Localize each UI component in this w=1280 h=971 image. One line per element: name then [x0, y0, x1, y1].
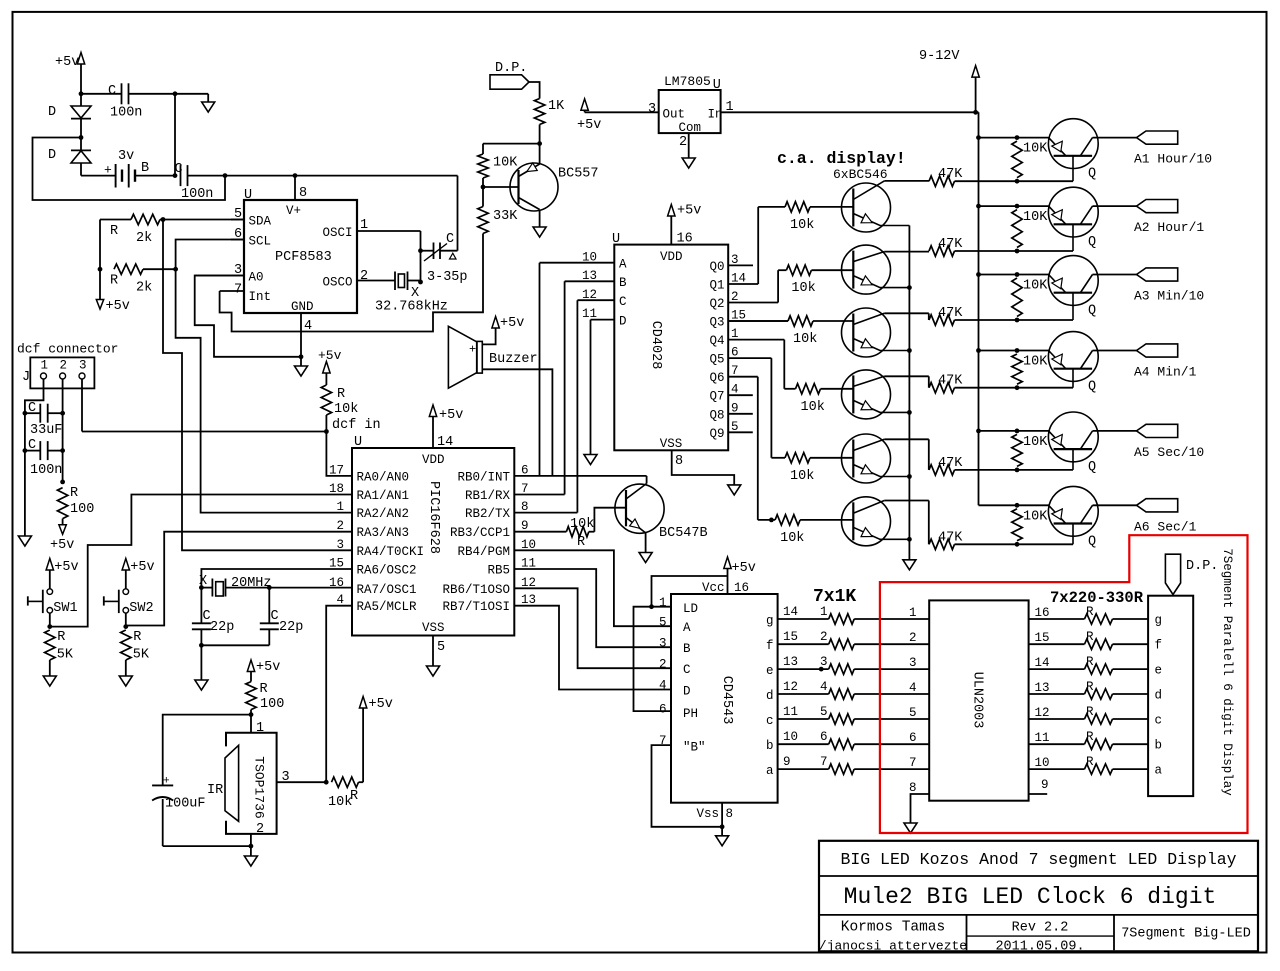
- IC U PCF8583 box: [244, 200, 357, 313]
- wire emitter row 4: [979, 350, 1049, 352]
- svg-text:8: 8: [726, 807, 734, 821]
- wire C1 to ground: [129, 93, 209, 95]
- svg-text:Q: Q: [1088, 235, 1096, 250]
- svg-text:10K: 10K: [493, 156, 518, 171]
- resistor 10K (BC557 base pullup): [478, 154, 488, 178]
- junction 10K top row 1: [1015, 135, 1020, 140]
- wire RB6 to CD4543 C: [514, 588, 671, 668]
- IC TSOP1736 box: [226, 733, 277, 834]
- svg-text:e: e: [1155, 664, 1163, 678]
- svg-text:d: d: [766, 689, 774, 703]
- node SCL riser: [173, 267, 178, 272]
- svg-text:SCL: SCL: [249, 235, 272, 249]
- svg-text:Q0: Q0: [709, 260, 724, 274]
- transistor Q1 BC327 (pnp): [1048, 119, 1098, 169]
- pin 2 TSOP gnd: [250, 834, 252, 846]
- svg-text:PIC16F628: PIC16F628: [426, 481, 441, 554]
- svg-text:Q3: Q3: [709, 316, 724, 330]
- svg-text:R: R: [110, 274, 118, 289]
- wire TSOP gnd rail: [163, 845, 251, 847]
- ground (BC557 collector): [533, 227, 546, 237]
- wire LD to PH: [634, 607, 672, 711]
- svg-text:U: U: [354, 435, 362, 450]
- wire node to 10K: [483, 143, 540, 145]
- svg-text:A: A: [683, 621, 691, 635]
- wire BC546 emitter rail: [908, 226, 910, 560]
- svg-text:RB7/T1OSI: RB7/T1OSI: [442, 600, 510, 614]
- node SW2: [123, 624, 128, 629]
- wire RA1 to SW1: [50, 495, 352, 627]
- wire emitter row 6: [979, 504, 1049, 506]
- pin 3 A0: [195, 275, 244, 277]
- svg-text:Out: Out: [663, 108, 686, 122]
- svg-text:7x220-330R: 7x220-330R: [1050, 589, 1144, 607]
- svg-text:2: 2: [679, 135, 687, 150]
- svg-text:LM7805: LM7805: [664, 74, 711, 89]
- pin 4 GND: [300, 313, 302, 357]
- svg-text:+: +: [163, 776, 170, 788]
- wire RB7 to CD4543 D: [514, 606, 671, 690]
- svg-text:7Segment Big-LED: 7Segment Big-LED: [1121, 927, 1251, 942]
- wire pin7 to Vss: [652, 745, 723, 827]
- svg-text:+5v: +5v: [369, 697, 393, 712]
- junction T6 base wire: [769, 518, 774, 523]
- svg-text:A0: A0: [249, 271, 264, 285]
- svg-text:c: c: [1155, 714, 1163, 728]
- pin 3 TSOP out: [277, 781, 327, 783]
- node TSOP pin1: [249, 712, 254, 717]
- pin 11 D: [591, 319, 615, 321]
- svg-text:47K: 47K: [938, 167, 963, 182]
- wire 2k left vertical: [99, 220, 101, 270]
- IC U LM7805 box: [659, 90, 721, 133]
- svg-text:Q9: Q9: [709, 427, 724, 441]
- svg-text:+5v: +5v: [577, 118, 601, 133]
- wire D.P. to 1K: [529, 82, 540, 99]
- svg-text:1: 1: [360, 218, 368, 233]
- svg-text:R: R: [337, 387, 345, 402]
- wire Q4 riser to T4 base: [783, 340, 785, 389]
- pin 12 C: [577, 299, 614, 301]
- IC U PIC16F628 box: [352, 448, 514, 636]
- +5v supply (CD4543 Vcc): [724, 557, 731, 569]
- svg-text:dcf in: dcf in: [332, 418, 381, 433]
- svg-text:U: U: [713, 78, 721, 93]
- node TSOP out: [324, 780, 329, 785]
- svg-text:CD4028: CD4028: [648, 321, 663, 370]
- svg-text:Vss: Vss: [697, 807, 720, 821]
- resistor R 10k (TSOP pullup): [332, 777, 359, 787]
- junction rail row 4: [976, 348, 981, 353]
- wire T6 collector: [884, 500, 929, 502]
- svg-text:5: 5: [437, 640, 445, 655]
- wire CD4028 B riser to RB1: [564, 281, 566, 494]
- junction 10K bottom row 6: [1015, 542, 1020, 547]
- crystal X 20MHz: [201, 587, 212, 589]
- svg-text:RA1/AN1: RA1/AN1: [357, 489, 410, 503]
- resistor 10K (row 3): [1012, 278, 1022, 316]
- svg-text:J: J: [22, 370, 30, 385]
- svg-text:CD4543: CD4543: [719, 676, 734, 725]
- svg-text:RB1/RX: RB1/RX: [465, 489, 511, 503]
- wire Q6 riser to T6 base: [757, 377, 759, 520]
- resistor 47K (row 3): [929, 315, 955, 325]
- wire OSCI vertical: [420, 231, 422, 282]
- flag A1 Hour/10: [1137, 131, 1178, 144]
- svg-text:Rev 2.2: Rev 2.2: [1012, 921, 1069, 936]
- svg-text:VSS: VSS: [660, 437, 683, 451]
- pin 13 B: [565, 280, 615, 282]
- junction T5 emitter rail: [907, 474, 912, 479]
- svg-text:A4 Min/1: A4 Min/1: [1134, 365, 1197, 380]
- svg-text:VSS: VSS: [422, 621, 445, 635]
- svg-text:RB3/CCP1: RB3/CCP1: [450, 526, 510, 540]
- svg-text:2: 2: [909, 631, 917, 645]
- node GND/A0: [299, 354, 304, 359]
- svg-text:10k: 10k: [334, 402, 358, 417]
- wire Q5 riser to T5 base: [770, 358, 772, 458]
- svg-text:A: A: [619, 258, 627, 272]
- +5v supply (dcf R100, down arrow): [59, 525, 66, 535]
- wire node down to battery rail: [174, 94, 176, 176]
- svg-text:14: 14: [1035, 656, 1050, 670]
- junction 10K bottom row 1: [1015, 179, 1020, 184]
- svg-text:3: 3: [648, 102, 656, 117]
- svg-text:3: 3: [659, 637, 667, 651]
- wire +5v node to C1: [81, 93, 122, 95]
- svg-text:A3 Min/10: A3 Min/10: [1134, 289, 1204, 304]
- node +5v/D/C1: [79, 91, 84, 96]
- svg-text:10k: 10k: [793, 332, 817, 347]
- resistor R 10k (dcf pullup): [325, 415, 327, 432]
- svg-text:SDA: SDA: [249, 215, 272, 229]
- junction rail row 2: [976, 204, 981, 209]
- ground (BC546 emitter rail): [903, 560, 916, 570]
- ground (PCF8583 GND pin): [300, 357, 302, 366]
- svg-text:f: f: [1155, 639, 1163, 653]
- svg-text:+5v: +5v: [256, 660, 280, 675]
- svg-text:20MHz: 20MHz: [231, 576, 272, 591]
- svg-text:D.P.: D.P.: [495, 61, 527, 76]
- node dcf in: [324, 429, 329, 434]
- junction rail row 1: [976, 135, 981, 140]
- svg-text:Q4: Q4: [709, 334, 724, 348]
- svg-text:15: 15: [1035, 631, 1050, 645]
- pin 8 V+: [294, 176, 296, 200]
- red highlight box (display section): [880, 535, 1248, 833]
- transistor Q2 BC546 (npn): [842, 245, 891, 294]
- resistor 33K: [482, 187, 484, 207]
- junction C100n right: [60, 448, 65, 453]
- wire T5 collector: [884, 438, 929, 440]
- title cell divider v2: [1113, 915, 1115, 950]
- wire RB3 base riser: [594, 508, 626, 532]
- svg-text:GND: GND: [291, 300, 314, 314]
- node Vss: [720, 824, 725, 829]
- node 10K/33K/base: [481, 185, 486, 190]
- node crystal/OSCI: [418, 280, 423, 285]
- ground (C1): [207, 94, 209, 102]
- svg-text:Q1: Q1: [709, 279, 724, 293]
- svg-text:+5v: +5v: [106, 299, 130, 314]
- wire collector to flag row 1: [1093, 137, 1137, 139]
- wire SW2 to resistor: [125, 613, 127, 627]
- trimmer capacitor C 3-35p: [421, 250, 434, 252]
- svg-text:13: 13: [1035, 681, 1050, 695]
- +5v supply (dcf pullup): [323, 362, 330, 374]
- svg-text:f: f: [766, 639, 774, 653]
- node C1-right: [173, 91, 178, 96]
- svg-text:22p: 22p: [279, 620, 303, 635]
- svg-text:3: 3: [336, 538, 344, 552]
- svg-text:Q: Q: [1088, 460, 1096, 475]
- svg-text:R: R: [1086, 705, 1094, 719]
- junction rail row 5: [976, 429, 981, 434]
- ground (SW2): [119, 676, 132, 686]
- svg-text:4: 4: [659, 679, 667, 693]
- svg-text:BIG LED Kozos Anod 7 segment L: BIG LED Kozos Anod 7 segment LED Display: [840, 850, 1236, 869]
- junction C33uF right: [60, 411, 65, 416]
- transistor Q3 BC327 (pnp): [1048, 256, 1098, 306]
- resistor 47K (row 1): [929, 176, 955, 186]
- resistor 10K (row 1): [1012, 141, 1022, 178]
- wire emitter row 5: [979, 430, 1049, 432]
- ground (BC547B emitter): [639, 553, 652, 563]
- svg-text:A2 Hour/1: A2 Hour/1: [1134, 220, 1204, 235]
- ground (dcf pin1): [18, 536, 31, 546]
- resistor R 2k (SCL pullup): [114, 264, 143, 274]
- svg-text:LD: LD: [683, 602, 698, 616]
- node SDA: [161, 217, 166, 222]
- svg-text:47K: 47K: [938, 306, 963, 321]
- wire emitter row 2: [979, 205, 1049, 207]
- svg-text:10k: 10k: [790, 469, 814, 484]
- svg-text:Q2: Q2: [709, 297, 724, 311]
- svg-text:12: 12: [783, 680, 798, 694]
- svg-text:dcf connector: dcf connector: [17, 342, 118, 357]
- transistor Q1 BC546 (npn): [842, 183, 891, 232]
- svg-text:11: 11: [1035, 731, 1050, 745]
- node crystal right: [267, 585, 272, 590]
- junction 10K top row 6: [1015, 503, 1020, 508]
- trimmer junction: [418, 248, 423, 253]
- svg-text:D: D: [48, 148, 56, 163]
- transistor Q2 BC327 (pnp): [1048, 187, 1098, 237]
- junction T4 emitter rail: [907, 410, 912, 415]
- wire CD4028 D riser to ground: [590, 320, 592, 455]
- wire LD to Vcc: [652, 576, 728, 607]
- wire RA0 to dcf in node: [326, 432, 352, 476]
- svg-text:RA6/OSC2: RA6/OSC2: [357, 564, 417, 578]
- transistor Q BC557 (pnp): [510, 163, 558, 211]
- svg-text:D: D: [48, 105, 56, 120]
- node 2k join: [98, 267, 103, 272]
- wire dcf pin3 to dcf-in: [81, 379, 83, 432]
- capacitor C 33uF: [25, 412, 40, 414]
- svg-text:10k: 10k: [328, 795, 352, 810]
- ground (LM7805 Com): [682, 158, 695, 168]
- node 1K/emitter: [537, 141, 542, 146]
- node V+ pin8 junction: [293, 173, 298, 178]
- wire Q1 riser to T1 base: [757, 207, 759, 284]
- title block outer box: [819, 841, 1258, 952]
- ground (SW1): [43, 676, 56, 686]
- transistor Q4 BC546 (npn): [842, 370, 891, 419]
- wire T4 collector step: [928, 376, 930, 387]
- pin 6 SCL: [231, 239, 244, 241]
- svg-text:13: 13: [783, 655, 798, 669]
- svg-text:+5v: +5v: [55, 55, 79, 70]
- resistor 47K (row 6): [929, 539, 955, 549]
- wire collector to flag row 3: [1093, 274, 1137, 276]
- svg-text:R: R: [70, 486, 78, 501]
- svg-text:/janocsi attervezte: /janocsi attervezte: [819, 939, 967, 954]
- svg-text:9: 9: [1041, 778, 1049, 792]
- IC U CD4028 box: [614, 245, 728, 451]
- IC CD4543 box: [671, 594, 778, 803]
- svg-text:2011.05.09.: 2011.05.09.: [995, 940, 1084, 955]
- svg-text:7Segment Paralell 6 digit Disp: 7Segment Paralell 6 digit Display: [1220, 548, 1234, 796]
- wire T3 collector: [884, 312, 929, 314]
- svg-text:3: 3: [282, 770, 290, 785]
- flag A6 Sec/1: [1137, 499, 1178, 512]
- pin 10 A: [540, 262, 615, 264]
- svg-text:R: R: [57, 630, 65, 645]
- svg-text:3v: 3v: [118, 149, 134, 164]
- svg-text:2: 2: [360, 269, 368, 284]
- svg-text:SW2: SW2: [129, 601, 153, 616]
- flag A2 Hour/1: [1137, 200, 1178, 213]
- svg-text:10K: 10K: [1023, 355, 1048, 370]
- transistor Q5 BC327 (pnp): [1048, 412, 1098, 462]
- wire node to 100uF: [163, 715, 251, 786]
- svg-text:R: R: [260, 682, 268, 697]
- svg-text:b: b: [766, 739, 774, 753]
- svg-text:14: 14: [437, 435, 453, 450]
- svg-text:C: C: [108, 84, 116, 99]
- svg-text:R: R: [110, 224, 118, 239]
- svg-text:14: 14: [783, 605, 798, 619]
- svg-text:10K: 10K: [1023, 435, 1048, 450]
- wire Int net to 33K: [220, 234, 483, 332]
- svg-text:32.768kHz: 32.768kHz: [375, 300, 448, 315]
- transistor Q6 BC546 (npn): [842, 497, 891, 546]
- svg-text:10k: 10k: [801, 400, 825, 415]
- svg-text:5: 5: [659, 616, 667, 630]
- resistor 10K (row 5): [1012, 434, 1022, 466]
- svg-text:D: D: [683, 685, 691, 699]
- wire SW1 to resistor: [49, 613, 51, 627]
- title rev divider: [967, 935, 1115, 937]
- svg-text:IR: IR: [207, 783, 223, 798]
- svg-text:9: 9: [783, 755, 791, 769]
- svg-text:10: 10: [1035, 756, 1050, 770]
- svg-text:6: 6: [659, 703, 667, 717]
- resistor 10k (T4 base): [784, 388, 795, 390]
- svg-text:Q5: Q5: [709, 353, 724, 367]
- node dcf R100 top: [60, 480, 65, 485]
- svg-text:R: R: [133, 630, 141, 645]
- svg-text:100: 100: [70, 502, 94, 517]
- wire collector to flag row 6: [1093, 504, 1137, 506]
- +5v supply (TSOP pullup): [362, 708, 364, 782]
- ground (CD4543 Vss): [721, 827, 723, 836]
- svg-text:D: D: [619, 314, 627, 328]
- svg-text:33uF: 33uF: [30, 423, 62, 438]
- svg-text:b: b: [1155, 739, 1163, 753]
- capacitor 100uF (electrolytic): [152, 784, 173, 786]
- capacitor C 100n (dcf): [25, 450, 40, 452]
- wire RA7 to crystal: [269, 587, 352, 589]
- svg-text:7: 7: [909, 756, 917, 770]
- svg-text:Q: Q: [1088, 167, 1096, 182]
- junction 10K bottom row 4: [1015, 385, 1020, 390]
- svg-text:2: 2: [659, 658, 667, 672]
- svg-text:OSCI: OSCI: [322, 226, 352, 240]
- junction T2 emitter rail: [907, 285, 912, 290]
- svg-text:BC547B: BC547B: [659, 526, 708, 541]
- svg-text:1K: 1K: [548, 99, 565, 114]
- svg-text:U: U: [612, 232, 620, 247]
- svg-text:g: g: [766, 614, 774, 628]
- wire T5 collector step: [928, 439, 930, 470]
- svg-text:47K: 47K: [938, 456, 963, 471]
- node LD: [649, 604, 654, 609]
- node between diodes: [79, 135, 84, 140]
- svg-text:13: 13: [582, 269, 597, 283]
- wire TSOP out to RA5: [326, 606, 352, 783]
- svg-text:+5v: +5v: [500, 316, 524, 331]
- resistor R 5K (SW2): [121, 630, 131, 660]
- junction T3 emitter rail: [907, 348, 912, 353]
- wire RB2 net: [514, 512, 577, 514]
- junction 10K bottom row 2: [1015, 249, 1020, 254]
- wire SCL net to RA2: [176, 240, 352, 513]
- node 22p join: [199, 643, 204, 648]
- +5v supply (SW1): [46, 559, 53, 571]
- junction C100n left: [23, 448, 28, 453]
- +5v supply (CD4028 VDD): [668, 205, 675, 217]
- junction 10K top row 2: [1015, 204, 1020, 209]
- svg-text:1: 1: [909, 606, 917, 620]
- svg-text:Int: Int: [249, 290, 272, 304]
- svg-text:100: 100: [260, 697, 284, 712]
- svg-text:1: 1: [820, 605, 828, 619]
- IC ULN2003 box: [929, 600, 1028, 800]
- resistor 10k (T5 base): [771, 457, 785, 459]
- resistor R 2k (SDA pullup): [100, 219, 131, 221]
- svg-text:A6 Sec/1: A6 Sec/1: [1134, 519, 1197, 534]
- +5v supply (LM7805 output): [581, 99, 588, 111]
- connector 7segment display box: [1148, 596, 1193, 796]
- wire 100uF to gnd rail: [162, 799, 164, 846]
- svg-text:33K: 33K: [493, 209, 518, 224]
- svg-text:16: 16: [1035, 606, 1050, 620]
- +5v supply (2k pullups, down arrow): [99, 269, 101, 299]
- svg-text:4: 4: [909, 681, 917, 695]
- junction 10K bottom row 3: [1015, 318, 1020, 323]
- svg-text:16: 16: [677, 232, 693, 247]
- svg-text:15: 15: [783, 630, 798, 644]
- svg-text:RA2/AN2: RA2/AN2: [357, 507, 410, 521]
- svg-text:RB6/T1OSO: RB6/T1OSO: [442, 583, 510, 597]
- svg-text:B: B: [619, 276, 627, 290]
- wire T6 collector step: [928, 501, 930, 545]
- junction C33uF left: [23, 411, 28, 416]
- wire emitter row 3: [979, 274, 1049, 276]
- svg-text:Kormos Tamas: Kormos Tamas: [841, 920, 945, 936]
- junction 10K top row 3: [1015, 272, 1020, 277]
